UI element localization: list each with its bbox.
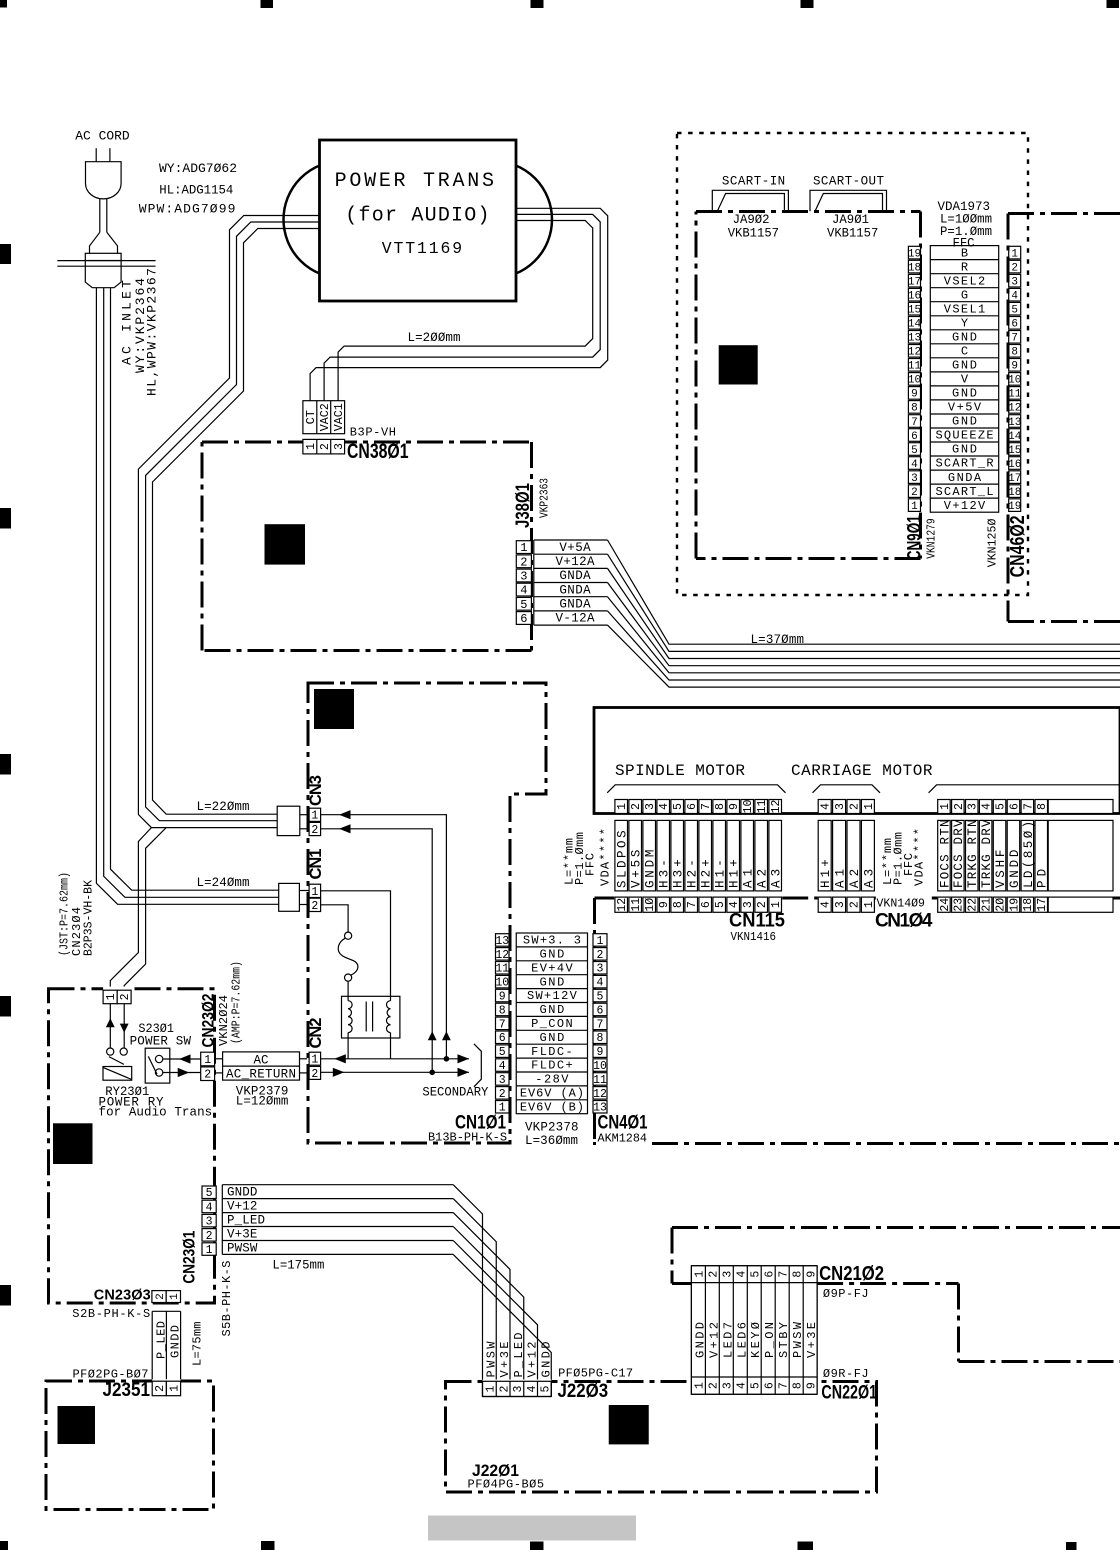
- svg-text:H1+: H1+: [728, 859, 742, 888]
- svg-text:VKB1157: VKB1157: [827, 227, 878, 241]
- SCART unit dotted enclosure: [677, 133, 1028, 595]
- svg-text:R: R: [961, 260, 968, 274]
- svg-text:B: B: [961, 246, 968, 260]
- svg-text:2: 2: [311, 900, 318, 913]
- board AUDIO black square: [265, 524, 306, 564]
- svg-text:22: 22: [967, 898, 980, 912]
- svg-text:J22Ø3: J22Ø3: [558, 1381, 609, 1402]
- svg-text:J38Ø1: J38Ø1: [513, 483, 534, 528]
- svg-text:24: 24: [939, 898, 952, 912]
- svg-text:3: 3: [911, 473, 918, 485]
- svg-text:10: 10: [908, 375, 921, 387]
- board J2351 black square: [58, 1406, 96, 1444]
- svg-text:EV6V (A): EV6V (A): [520, 1087, 584, 1101]
- svg-text:H3-: H3-: [658, 859, 672, 888]
- label L=370mm: [751, 633, 805, 647]
- svg-text:GND: GND: [952, 443, 977, 457]
- FFC VKP2378 L=360mm net table: [516, 933, 587, 1148]
- svg-text:4: 4: [728, 901, 741, 908]
- svg-text:V+12V: V+12V: [944, 499, 986, 513]
- svg-text:1: 1: [206, 1244, 213, 1257]
- svg-text:9: 9: [597, 1046, 604, 1059]
- svg-text:3: 3: [1011, 276, 1018, 288]
- AC plug (AC CORD): [86, 148, 122, 199]
- svg-text:6: 6: [911, 431, 918, 443]
- svg-text:7: 7: [686, 901, 699, 908]
- svg-text:CN9Ø1: CN9Ø1: [905, 515, 926, 560]
- svg-text:2Ø: 2Ø: [994, 898, 1007, 912]
- svg-text:17: 17: [1036, 898, 1049, 912]
- connector J2203 pins 1-5 (PF05PG-C17): [483, 1333, 634, 1402]
- label AC CORD: [75, 129, 129, 144]
- svg-text:V+12: V+12: [227, 1200, 257, 1214]
- svg-text:4: 4: [597, 977, 604, 990]
- svg-text:15: 15: [1008, 445, 1021, 457]
- svg-text:13: 13: [908, 333, 921, 345]
- svg-text:2: 2: [630, 803, 643, 810]
- board SCART black square: [719, 345, 758, 384]
- svg-text:PFØ5PG-C17: PFØ5PG-C17: [558, 1367, 633, 1381]
- connector CN115 spindle motor strips pins 1-12 (VKN1416): [615, 800, 786, 945]
- label J2201 PF04PG-B05: [468, 1461, 545, 1492]
- svg-text:1: 1: [770, 901, 783, 908]
- svg-text:GND: GND: [539, 948, 564, 962]
- svg-text:13: 13: [495, 935, 509, 948]
- svg-text:H2-: H2-: [686, 859, 700, 888]
- board hosting CN4602 outline (dash-dot): [1008, 214, 1120, 622]
- board SCART outline (dash-dot): [696, 212, 921, 559]
- svg-text:CN23Ø1: CN23Ø1: [180, 1231, 198, 1284]
- svg-text:3: 3: [333, 443, 346, 450]
- svg-text:WPW:ADG7Ø99: WPW:ADG7Ø99: [139, 202, 236, 217]
- svg-text:14: 14: [1008, 431, 1022, 443]
- svg-text:2: 2: [520, 555, 527, 569]
- wire CN2-1 secondary (arrows): [321, 1054, 469, 1063]
- svg-text:SPINDLE MOTOR: SPINDLE MOTOR: [615, 762, 745, 780]
- svg-text:3: 3: [520, 570, 527, 584]
- svg-text:12: 12: [495, 949, 509, 962]
- svg-text:V-12A: V-12A: [556, 612, 595, 626]
- svg-text:CN22Ø1: CN22Ø1: [821, 1382, 877, 1404]
- svg-text:H1-: H1-: [714, 859, 728, 888]
- svg-text:3: 3: [512, 1385, 525, 1392]
- svg-text:1: 1: [485, 1385, 498, 1392]
- svg-text:8: 8: [597, 1032, 604, 1045]
- svg-text:4: 4: [499, 1060, 506, 1073]
- svg-text:8: 8: [714, 803, 727, 810]
- svg-text:HL:ADG1154: HL:ADG1154: [159, 182, 233, 197]
- svg-text:7: 7: [911, 417, 918, 429]
- board J2201 black square: [609, 1405, 649, 1444]
- svg-text:16: 16: [908, 290, 921, 302]
- svg-text:4: 4: [820, 803, 833, 810]
- svg-text:8: 8: [911, 403, 918, 415]
- connector JA902 SCART-IN: [712, 175, 788, 241]
- gray label box: [428, 1516, 636, 1541]
- svg-text:6: 6: [764, 1382, 777, 1389]
- wire transformer primary bundle (3 wires) to CN3/CN1 area and CN2304: [110, 216, 319, 991]
- connector JA901 SCART-OUT: [810, 175, 887, 241]
- svg-text:PWSW: PWSW: [227, 1242, 258, 1256]
- svg-text:19: 19: [1008, 501, 1021, 513]
- connector CN3801 wire labels CT VAC2 VAC1: [303, 401, 346, 434]
- svg-text:FOCS DRV: FOCS DRV: [952, 819, 966, 888]
- svg-text:1: 1: [694, 1271, 707, 1278]
- svg-text:6: 6: [499, 1032, 506, 1045]
- svg-text:3: 3: [967, 803, 980, 810]
- svg-text:Ø9R-FJ: Ø9R-FJ: [823, 1367, 869, 1381]
- svg-text:FFC: FFC: [584, 853, 598, 876]
- svg-text:5: 5: [750, 1271, 763, 1278]
- svg-text:18: 18: [908, 262, 921, 274]
- svg-text:SCART_R: SCART_R: [935, 457, 993, 471]
- svg-text:H2+: H2+: [700, 859, 714, 888]
- wire AC cord 3 conductors down to L=240mm run: [96, 288, 278, 905]
- svg-text:B3P-VH: B3P-VH: [350, 426, 396, 440]
- svg-text:FLDC-: FLDC-: [531, 1045, 573, 1059]
- svg-text:1: 1: [863, 901, 876, 908]
- svg-text:FLDC+: FLDC+: [531, 1059, 573, 1073]
- svg-text:13: 13: [1008, 417, 1021, 429]
- svg-text:VKN1416: VKN1416: [731, 930, 777, 944]
- wire transformer secondary L=200mm to CN3801: [310, 208, 608, 400]
- svg-text:5: 5: [750, 1382, 763, 1389]
- svg-text:4: 4: [736, 1382, 749, 1389]
- svg-text:AKM1284: AKM1284: [598, 1132, 648, 1146]
- svg-text:L=2ØØmm: L=2ØØmm: [408, 331, 461, 345]
- svg-text:12: 12: [593, 1088, 607, 1101]
- svg-text:4: 4: [1011, 290, 1018, 302]
- svg-text:1: 1: [939, 803, 952, 810]
- svg-text:23: 23: [953, 898, 966, 912]
- svg-text:8: 8: [1036, 803, 1049, 810]
- relay RY2301 contacts and blade: [107, 1048, 128, 1064]
- svg-text:5: 5: [206, 1187, 213, 1200]
- wire CN2304-2 to relay contact (down arrow): [120, 1004, 129, 1048]
- svg-text:5: 5: [994, 803, 1007, 810]
- fuse F101: [338, 932, 358, 1001]
- svg-text:VKN14Ø9: VKN14Ø9: [877, 897, 926, 911]
- svg-text:1: 1: [311, 1054, 318, 1067]
- label L=240mm: [197, 876, 250, 890]
- svg-text:9: 9: [806, 1382, 819, 1389]
- connector CN1 pins 1-2: [299, 849, 325, 913]
- svg-text:SCART-IN: SCART-IN: [722, 175, 785, 189]
- svg-text:4: 4: [981, 803, 994, 810]
- svg-text:GNDA: GNDA: [559, 598, 591, 612]
- svg-text:3: 3: [722, 1382, 735, 1389]
- svg-text:CN115: CN115: [729, 911, 785, 932]
- svg-text:8: 8: [792, 1271, 805, 1278]
- svg-text:2: 2: [597, 949, 604, 962]
- svg-text:CN21Ø2: CN21Ø2: [819, 1263, 884, 1285]
- transformer T101 on PSU board: [342, 996, 400, 1059]
- AC inlet body: [57, 198, 155, 287]
- svg-text:11: 11: [756, 800, 769, 814]
- svg-text:AC: AC: [253, 1053, 268, 1067]
- mech assembly outline SPINDLE MOTOR / CARRIAGE MOTOR: [594, 708, 1120, 814]
- connector J3801 pins 1-6 (VKP2363): [513, 478, 552, 626]
- svg-text:LD(85Ø): LD(85Ø): [1022, 821, 1036, 888]
- svg-text:WY:ADG7Ø62: WY:ADG7Ø62: [159, 161, 237, 176]
- svg-text:3: 3: [597, 963, 604, 976]
- svg-text:9: 9: [658, 901, 671, 908]
- svg-text:2: 2: [311, 1068, 318, 1081]
- connector CN3801 pins 1-3 (B3P-VH): [303, 426, 409, 464]
- ferrite bead on CN3 wires: [277, 806, 300, 835]
- svg-text:L=37Ømm: L=37Ømm: [751, 633, 805, 647]
- svg-text:L=22Ømm: L=22Ømm: [197, 800, 250, 814]
- svg-text:CN46Ø2: CN46Ø2: [1007, 515, 1029, 577]
- wire CN1-1 to transformer right winding: [321, 891, 391, 1001]
- svg-text:9: 9: [728, 803, 741, 810]
- svg-text:18: 18: [1022, 898, 1035, 912]
- wire S2301 to CN2302-2 (arrow right): [163, 1068, 201, 1077]
- board POWER SUPPLY outline (dash-dot): [308, 683, 546, 1143]
- svg-text:GND: GND: [952, 415, 977, 429]
- svg-text:10: 10: [1008, 375, 1021, 387]
- svg-text:AC CORD: AC CORD: [75, 129, 129, 144]
- svg-text:12: 12: [908, 347, 921, 359]
- svg-text:C: C: [961, 345, 968, 359]
- svg-text:9: 9: [806, 1271, 819, 1278]
- svg-text:SECONDARY: SECONDARY: [422, 1086, 488, 1100]
- svg-text:B13B-PH-K-S: B13B-PH-K-S: [428, 1131, 507, 1145]
- svg-text:1Ø: 1Ø: [644, 898, 657, 912]
- svg-text:2: 2: [708, 1271, 721, 1278]
- svg-text:1: 1: [311, 886, 318, 899]
- svg-text:6: 6: [700, 901, 713, 908]
- svg-text:15: 15: [908, 304, 921, 316]
- svg-text:7: 7: [778, 1382, 791, 1389]
- svg-text:1: 1: [305, 443, 318, 450]
- svg-text:G: G: [961, 288, 968, 302]
- svg-text:5: 5: [540, 1385, 553, 1392]
- label AC cord part numbers: [139, 161, 237, 217]
- label L=220mm: [197, 800, 250, 814]
- svg-text:2: 2: [499, 1088, 506, 1101]
- svg-text:GND: GND: [952, 387, 977, 401]
- svg-text:(AMP:P=7.62mm): (AMP:P=7.62mm): [229, 961, 243, 1044]
- svg-text:VDA****: VDA****: [599, 828, 613, 886]
- wire bundle L=370mm (7 lines) from J3801 to right edge: [608, 540, 1120, 687]
- ferrite bead on CN1 wires: [279, 883, 300, 911]
- connector CN401 pins 1-13 (AKM1284): [593, 934, 648, 1146]
- svg-text:4: 4: [658, 803, 671, 810]
- svg-text:SW+3. 3: SW+3. 3: [523, 934, 581, 948]
- svg-text:12: 12: [616, 898, 629, 912]
- svg-text:14: 14: [908, 319, 922, 331]
- board AUDIO outline (dash-dot): [202, 442, 532, 651]
- svg-text:18: 18: [1008, 487, 1021, 499]
- svg-text:2: 2: [155, 1293, 167, 1300]
- svg-text:V+12A: V+12A: [556, 555, 595, 569]
- svg-text:CN23Ø2: CN23Ø2: [198, 994, 217, 1048]
- svg-text:VKP2378: VKP2378: [525, 1121, 579, 1135]
- svg-text:6: 6: [1008, 803, 1021, 810]
- svg-text:4: 4: [820, 901, 833, 908]
- svg-text:CN38Ø1: CN38Ø1: [347, 440, 409, 463]
- svg-text:CN23Ø3: CN23Ø3: [94, 1288, 151, 1304]
- svg-text:HL,WPW:VKP2367: HL,WPW:VKP2367: [145, 268, 160, 396]
- connector CN2302 pins 1-2 (VKN2024 AMP): [198, 961, 243, 1082]
- svg-text:7: 7: [700, 803, 713, 810]
- board FR black square: [53, 1123, 93, 1164]
- svg-text:17: 17: [1008, 473, 1021, 485]
- svg-text:3: 3: [834, 901, 847, 908]
- svg-text:S5B-PH-K-S: S5B-PH-K-S: [220, 1261, 234, 1337]
- svg-text:21: 21: [981, 898, 994, 912]
- connector CN104 carriage motor strips pins 4-1 (VKN1409): [818, 800, 933, 932]
- svg-text:AC_RETURN: AC_RETURN: [226, 1067, 296, 1081]
- board FRONT PANEL outline (dash-dot): [672, 1228, 1120, 1362]
- svg-text:19: 19: [1008, 898, 1021, 912]
- svg-text:17: 17: [908, 276, 921, 288]
- svg-text:1: 1: [520, 541, 527, 555]
- connector CN4602 pins 1-19 (VKN1250): [986, 246, 1029, 577]
- svg-text:16: 16: [1008, 459, 1021, 471]
- svg-text:2: 2: [911, 487, 918, 499]
- wire CN2-2 secondary (arrows): [321, 1068, 469, 1077]
- svg-text:2: 2: [154, 1385, 167, 1392]
- label PF02PG-B07: [73, 1368, 149, 1382]
- svg-text:CN4Ø1: CN4Ø1: [598, 1113, 648, 1134]
- svg-text:V: V: [961, 373, 969, 387]
- svg-text:(for AUDIO): (for AUDIO): [345, 204, 489, 227]
- connector CN901 pins 19-1 (VKN1279): [905, 246, 939, 560]
- connector J2351 pins 2-1: [103, 1379, 182, 1401]
- svg-text:9: 9: [1011, 361, 1018, 373]
- svg-text:L=36Ømm: L=36Ømm: [525, 1134, 578, 1148]
- svg-text:19: 19: [908, 248, 921, 260]
- svg-text:6: 6: [686, 803, 699, 810]
- svg-text:11: 11: [495, 963, 509, 976]
- svg-text:L=12Ømm: L=12Ømm: [236, 1095, 289, 1109]
- svg-text:H1+: H1+: [819, 859, 833, 888]
- harness P_LED / GNDD (L=75mm) to J2351: [152, 1311, 204, 1381]
- svg-text:10: 10: [495, 977, 509, 990]
- connector CN2304 pins 1-2 (B2P3S-VH-BK JST): [57, 872, 132, 1004]
- svg-text:1: 1: [597, 935, 604, 948]
- svg-text:12: 12: [1008, 403, 1021, 415]
- svg-text:V+5V: V+5V: [948, 401, 982, 415]
- svg-text:2: 2: [498, 1385, 511, 1392]
- svg-text:VKN125Ø: VKN125Ø: [986, 519, 1000, 568]
- svg-text:2: 2: [204, 1069, 211, 1082]
- svg-text:6: 6: [597, 1004, 604, 1017]
- svg-text:CN3: CN3: [307, 775, 325, 806]
- svg-text:JA9Ø2: JA9Ø2: [733, 213, 770, 227]
- svg-text:EV+4V: EV+4V: [531, 961, 573, 975]
- svg-text:5: 5: [1011, 304, 1018, 316]
- svg-text:7: 7: [778, 1271, 791, 1278]
- svg-text:Ø9P-FJ: Ø9P-FJ: [823, 1287, 869, 1301]
- svg-text:POWER SW: POWER SW: [130, 1035, 192, 1049]
- svg-text:Y: Y: [961, 316, 968, 330]
- svg-text:2: 2: [708, 1382, 721, 1389]
- svg-text:4: 4: [520, 584, 527, 598]
- svg-text:GND: GND: [952, 331, 977, 345]
- wire S2301 to CN2302-1 (arrow left): [163, 1054, 201, 1063]
- svg-text:CARRIAGE MOTOR: CARRIAGE MOTOR: [791, 762, 933, 780]
- svg-text:V+3E: V+3E: [227, 1228, 257, 1242]
- connector CN101 pins 13-1 (B13B-PH-K-S): [428, 934, 509, 1145]
- connector pickup FFC strips pins 1-8 / 24-17: [938, 800, 1113, 913]
- connector CN2 pins 1-2: [307, 1018, 325, 1081]
- svg-text:TRKG RTN: TRKG RTN: [966, 820, 980, 889]
- connector CN2301 pins 5-1: [180, 1186, 216, 1284]
- svg-text:GNDA: GNDA: [948, 471, 982, 485]
- label L=200mm: [408, 331, 461, 345]
- svg-text:PFØ4PG-BØ5: PFØ4PG-BØ5: [468, 1478, 545, 1492]
- net rows GNDD V+12 P_LED V+3E PWSW and harness L=175mm to J2203: [220, 1185, 551, 1397]
- svg-text:POWER TRANS: POWER TRANS: [335, 170, 494, 193]
- svg-text:EV6V (B): EV6V (B): [520, 1100, 584, 1114]
- svg-text:1: 1: [616, 803, 629, 810]
- svg-text:11: 11: [630, 898, 643, 912]
- svg-text:GND: GND: [539, 975, 564, 989]
- wire CN2304-1 to relay contact (down arrow up): [106, 1004, 115, 1048]
- svg-text:8: 8: [672, 901, 685, 908]
- svg-text:GND: GND: [952, 359, 977, 373]
- svg-text:3: 3: [834, 803, 847, 810]
- svg-text:1: 1: [169, 1293, 181, 1300]
- svg-text:B2P3S-VH-BK: B2P3S-VH-BK: [82, 879, 96, 956]
- svg-text:SCART_L: SCART_L: [935, 485, 993, 499]
- svg-text:L=175mm: L=175mm: [272, 1259, 324, 1273]
- svg-text:1: 1: [105, 993, 118, 1000]
- svg-text:J2351: J2351: [103, 1380, 151, 1401]
- label SECONDARY with bracket: [422, 1044, 488, 1100]
- svg-text:2: 2: [848, 803, 861, 810]
- board DVD unit outline (dash-dot): [595, 898, 1120, 1145]
- svg-text:8: 8: [792, 1382, 805, 1389]
- svg-text:6: 6: [1011, 319, 1018, 331]
- svg-text:7: 7: [1011, 333, 1018, 345]
- board FR outline (dash-dot): [49, 989, 215, 1303]
- svg-text:1: 1: [168, 1385, 181, 1392]
- svg-text:3: 3: [644, 803, 657, 810]
- svg-text:CT: CT: [304, 410, 318, 424]
- svg-text:FOCS RTN: FOCS RTN: [938, 820, 952, 889]
- svg-text:VSEL1: VSEL1: [944, 302, 986, 316]
- svg-text:GNDD: GNDD: [169, 1325, 183, 1358]
- svg-text:2: 2: [319, 443, 332, 450]
- wire CN1-2 to fuse: [321, 905, 349, 932]
- svg-text:H3+: H3+: [672, 859, 686, 888]
- svg-text:3: 3: [499, 1074, 506, 1087]
- svg-text:VKN1279: VKN1279: [925, 518, 939, 558]
- relay RY2301 coil POWER RY for Audio Trans: [99, 1067, 213, 1120]
- svg-text:11: 11: [908, 361, 922, 373]
- svg-text:8: 8: [1011, 347, 1018, 359]
- svg-text:CN1: CN1: [307, 849, 325, 880]
- svg-text:6: 6: [764, 1271, 777, 1278]
- svg-text:VAC1: VAC1: [332, 403, 346, 431]
- svg-text:GNDA: GNDA: [559, 583, 591, 597]
- svg-text:GNDD: GNDD: [227, 1186, 257, 1200]
- svg-text:VKB1157: VKB1157: [728, 227, 779, 241]
- svg-text:2: 2: [1011, 262, 1018, 274]
- svg-text:7: 7: [1022, 803, 1035, 810]
- svg-text:8: 8: [499, 1004, 506, 1017]
- board J2201 outline (dash-dot): [446, 1382, 877, 1493]
- svg-text:4: 4: [526, 1385, 539, 1392]
- svg-text:5: 5: [714, 901, 727, 908]
- svg-text:S2B-PH-K-S: S2B-PH-K-S: [72, 1307, 150, 1321]
- svg-text:P_LED: P_LED: [227, 1214, 265, 1228]
- svg-text:9: 9: [911, 389, 918, 401]
